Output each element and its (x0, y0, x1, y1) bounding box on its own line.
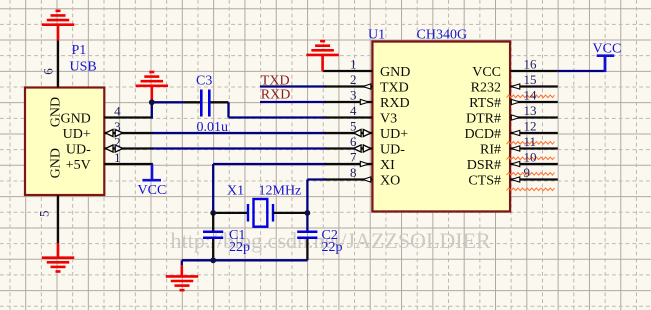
svg-text:DCD#: DCD# (464, 127, 501, 142)
svg-text:6: 6 (41, 68, 56, 75)
U1 pin 1 (323, 70, 373, 72)
svg-text:22p: 22p (229, 240, 250, 255)
ground symbol at U1 pin 1 (321, 56, 324, 71)
svg-text:USB: USB (70, 60, 97, 75)
P1 pin 4 (104, 116, 153, 118)
floating-pin marker at pin 12 (507, 142, 555, 145)
svg-text:XO: XO (380, 174, 400, 189)
U1 pin 8 (325, 178, 373, 180)
P1 pin 1 (104, 163, 153, 165)
svg-text:TXD: TXD (380, 81, 409, 96)
svg-text:7: 7 (350, 150, 357, 165)
svg-text:5: 5 (37, 211, 52, 218)
junction at XI/crystal/C1 (210, 210, 216, 216)
svg-text:XI: XI (380, 158, 395, 173)
capacitor C3 (184, 101, 200, 103)
svg-text:16: 16 (524, 57, 538, 72)
svg-text:DSR#: DSR# (467, 158, 501, 173)
svg-text:13: 13 (524, 103, 537, 118)
U1 pin 12 (510, 132, 558, 134)
P1 pin 3 (104, 132, 153, 134)
svg-text:2: 2 (114, 135, 121, 150)
svg-text:+5V: +5V (66, 158, 91, 173)
U1 pin 11 (510, 147, 558, 149)
junction at C1/ground bus (210, 257, 216, 263)
svg-text:9: 9 (524, 165, 531, 180)
svg-text:UD+: UD+ (63, 127, 91, 142)
wire P1 pin4 riser (151, 102, 153, 118)
connector P1 (25, 88, 104, 196)
floating-pin marker at pin 10 (507, 173, 555, 176)
U1 pin 6 (325, 147, 373, 149)
ground symbol at P1 pin 5 (bottom left) (57, 243, 60, 258)
floating-pin marker at pin 9 (507, 188, 555, 191)
wire XO net vertical (306, 180, 308, 232)
IC U1 body (372, 42, 510, 212)
svg-text:4: 4 (350, 103, 357, 118)
svg-text:22p: 22p (322, 240, 343, 255)
svg-text:RXD: RXD (380, 96, 410, 111)
wire TXD net (260, 85, 326, 87)
wire crystal ground bus (182, 259, 308, 261)
U1 pin 3 (325, 101, 373, 103)
P1 pin 5 (bottom, to ground) (57, 195, 59, 243)
svg-text:3: 3 (114, 119, 121, 134)
svg-text:RI#: RI# (480, 143, 501, 158)
svg-text:VCC: VCC (472, 65, 501, 80)
svg-text:X1: X1 (227, 184, 244, 199)
U1 pin 16 (510, 70, 558, 72)
ground symbol at P1 pin 6 (top left) (57, 26, 60, 40)
svg-text:RXD: RXD (261, 87, 291, 102)
svg-text:V3: V3 (380, 112, 397, 127)
svg-text:GND: GND (49, 148, 64, 178)
svg-text:DTR#: DTR# (466, 112, 501, 127)
wire XO net horizontal (307, 178, 326, 180)
svg-text:C3: C3 (196, 74, 212, 89)
U1 pin 4 (325, 116, 373, 118)
svg-text:2: 2 (350, 72, 357, 87)
svg-text:VCC: VCC (593, 41, 622, 56)
U1 pin 2 (325, 85, 373, 87)
U1 pin 14 (510, 101, 558, 103)
wire UD+ net (152, 132, 326, 134)
svg-text:12: 12 (524, 119, 537, 134)
P1 pin 6 (top, to ground) (57, 40, 59, 87)
svg-text:CTS#: CTS# (468, 174, 501, 189)
wire XI net vertical (212, 164, 214, 213)
floating-pin marker at pin 15 (507, 95, 555, 98)
U1 pin 5 (325, 132, 373, 134)
svg-text:UD-: UD- (66, 143, 91, 158)
svg-text:11: 11 (524, 134, 537, 149)
svg-text:8: 8 (350, 165, 357, 180)
svg-text:15: 15 (524, 72, 537, 87)
U1 pin 15 (510, 85, 558, 87)
svg-text:14: 14 (524, 88, 538, 103)
svg-text:GND: GND (60, 112, 90, 127)
junction at GND/C3 node (149, 99, 155, 105)
svg-text:4: 4 (114, 104, 121, 119)
svg-text:12MHz: 12MHz (259, 184, 302, 199)
U1 pin 13 (510, 116, 558, 118)
wire C3 to U1 pin 4 (227, 102, 229, 117)
svg-text:UD-: UD- (380, 143, 405, 158)
svg-text:TXD: TXD (261, 73, 290, 88)
svg-text:RTS#: RTS# (469, 96, 501, 111)
svg-text:CH340G: CH340G (417, 27, 468, 42)
svg-text:6: 6 (350, 134, 357, 149)
svg-text:P1: P1 (72, 43, 87, 58)
P1 pin 2 (104, 147, 153, 149)
junction at XO/crystal/C2 (305, 210, 311, 216)
svg-text:R232: R232 (471, 81, 501, 96)
power port VCC (left) (151, 164, 154, 180)
svg-text:VCC: VCC (138, 183, 167, 198)
svg-text:1: 1 (114, 150, 121, 165)
capacitor C1 (212, 213, 214, 231)
U1 pin 7 (325, 163, 373, 165)
U1 pin 10 (510, 163, 558, 165)
svg-text:10: 10 (524, 150, 537, 165)
svg-text:1: 1 (350, 57, 357, 72)
U1 pin 9 (510, 178, 558, 180)
svg-text:U1: U1 (368, 27, 385, 42)
power port VCC (top right) (597, 54, 615, 57)
capacitor C2 (306, 229, 308, 232)
ground symbol at crystal bus (181, 265, 184, 277)
wire XI net horizontal (213, 163, 326, 165)
wire UD- net (152, 147, 326, 149)
svg-text:UD+: UD+ (380, 127, 408, 142)
wire junction to C3 (152, 101, 184, 103)
wire RXD net (260, 101, 326, 103)
ground symbol above C3 wire (151, 87, 154, 102)
svg-text:5: 5 (350, 119, 357, 134)
crystal X1 (216, 212, 248, 214)
svg-text:3: 3 (350, 88, 357, 103)
floating-pin marker at pin 11 (507, 157, 555, 160)
svg-text:GND: GND (380, 65, 410, 80)
wire VCC net (right) (558, 70, 606, 72)
